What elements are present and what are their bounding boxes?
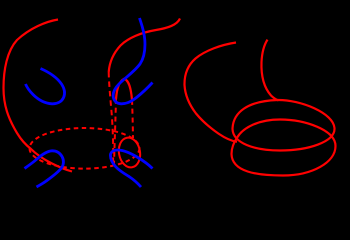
blue hairpin curve center — [113, 18, 152, 104]
red longitude curve upper part (solid) — [109, 19, 180, 73]
red lasso loop at meridian end — [117, 136, 143, 169]
right figure: upper oval (red) — [233, 100, 335, 151]
blue left hook — [25, 151, 64, 187]
right figure: lower oval (red) — [232, 120, 336, 176]
torus outer-left silhouette arc (red, solid) — [4, 20, 73, 172]
red meridian right leg (dashed) — [132, 100, 133, 138]
right figure: vertical strand into upper oval (red) — [261, 40, 278, 101]
red meridian dome (solid) — [116, 79, 132, 100]
right figure: big C strand into lower oval (red) — [184, 43, 237, 142]
blue right hook — [110, 150, 152, 187]
torus hole ellipse (red, dashed) — [30, 128, 140, 169]
red meridian left leg (dashed) — [114, 99, 116, 164]
red longitude curve hidden part (dashed) — [109, 72, 114, 166]
blue U arc upper-left — [26, 69, 65, 104]
